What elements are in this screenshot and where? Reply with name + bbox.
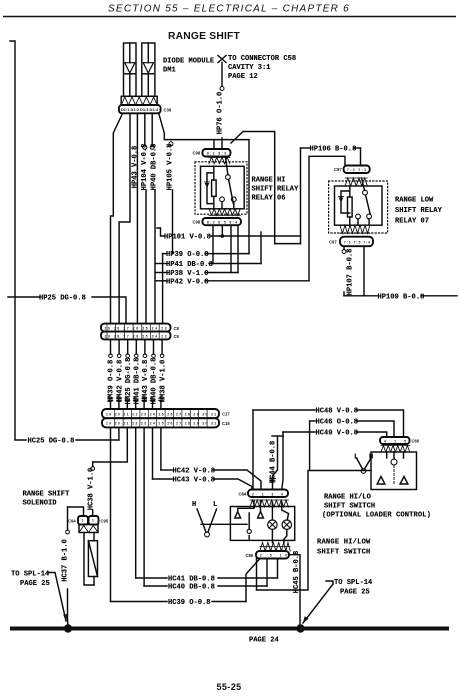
svg-text:HC39 O-0.8: HC39 O-0.8 [168, 599, 211, 607]
wire HP105 lower to HP39 row [172, 190, 174, 254]
svg-text:SHIFT SWITCH: SHIFT SWITCH [317, 549, 370, 557]
wire DM1 pin1 fan to strip pin 19 [111, 113, 123, 323]
wire HC41 from pin [277, 559, 279, 579]
wire HP25 branch tick [8, 296, 39, 298]
svg-text:RANGE HI/LOW: RANGE HI/LOW [317, 539, 371, 547]
svg-text:C97: C97 [334, 167, 342, 172]
relay 07 contact throws [356, 214, 361, 219]
optional switch triangle R [400, 477, 408, 485]
relay 06 contact common [226, 158, 228, 175]
lamp 1 [268, 520, 277, 529]
svg-text:C16: C16 [222, 421, 230, 426]
svg-text:PAGE 25: PAGE 25 [340, 589, 370, 597]
main switch center stub [248, 513, 250, 529]
svg-text:HC40 DB-0.8: HC40 DB-0.8 [168, 584, 215, 592]
relay 07 top crimps [345, 178, 367, 186]
wire lamp 1 out [271, 530, 273, 543]
svg-text:HC49 V-0.8: HC49 V-0.8 [316, 430, 359, 438]
svg-text:H: H [192, 501, 196, 509]
relay 07 contact common [362, 178, 365, 190]
wire relay06 right contact riser [260, 232, 262, 264]
wire HP39 row [163, 253, 166, 255]
lever main pivot [205, 532, 210, 537]
wire HC45 from pin 10 [289, 555, 301, 627]
svg-text:HP107 B-0.8: HP107 B-0.8 [346, 249, 354, 296]
svg-text:D1:1 D1:2 D1:3 D1:4: D1:1 D1:2 D1:3 D1:4 [121, 108, 158, 112]
wire HP39 riser [248, 140, 250, 254]
wire HP40 lower [154, 190, 156, 324]
relay 06 dashed enclosure [195, 162, 247, 214]
svg-text:L: L [354, 454, 358, 462]
wire HP107 B-0.8 [343, 246, 345, 249]
svg-text:HC45 B-0.8: HC45 B-0.8 [293, 551, 301, 594]
wire HC42 row [161, 469, 172, 471]
svg-text:DM1: DM1 [163, 67, 176, 75]
relay 06 contact throws [220, 197, 225, 202]
solenoid connector C95 [89, 516, 99, 525]
svg-text:HP106 B-0.8: HP106 B-0.8 [310, 146, 357, 154]
svg-text:TO CONNECTOR C58: TO CONNECTOR C58 [228, 55, 296, 63]
connector strip C9 [101, 332, 171, 340]
svg-text:HP104 V-0.8: HP104 V-0.8 [141, 144, 149, 191]
svg-text:C98: C98 [193, 220, 201, 225]
svg-text:C60: C60 [412, 439, 420, 444]
connector strip C16 [102, 418, 219, 427]
svg-text:H: H [369, 454, 373, 462]
wire lamp 2 out jog [284, 530, 287, 543]
svg-text:HM43 V-0.8: HM43 V-0.8 [142, 360, 150, 403]
off-page symbol to connector C58 [218, 56, 226, 63]
main switch body [230, 507, 294, 541]
svg-text:C94: C94 [68, 519, 76, 524]
wire solenoid left leg [84, 533, 94, 586]
svg-text:SHIFT RELAY: SHIFT RELAY [395, 207, 443, 215]
wire HP41 row [156, 263, 166, 265]
svg-text:RANGE SHIFT: RANGE SHIFT [168, 31, 241, 42]
wire HP104 lower [145, 190, 147, 324]
wire HC39 descent pin19 [110, 427, 112, 601]
relay 07 dashed enclosure [329, 181, 388, 233]
wire HM43 stub [144, 339, 146, 354]
node HP101 junction dot [220, 234, 224, 238]
main switch triangle 2 [258, 512, 264, 519]
wire HC40 row [144, 585, 167, 587]
wire HP106 row [301, 147, 311, 149]
wire HC41 descent pin22 [135, 427, 137, 578]
wire relay06 pin B4 to HP38 row [230, 225, 232, 272]
svg-text:DIODE MODULE: DIODE MODULE [163, 58, 214, 66]
wire HC37 B-1.0 [67, 507, 69, 530]
wire relay06 pin B2 to HP41 row [212, 225, 214, 263]
wire lever line to body [201, 523, 247, 525]
wire DM1 pin2 fan to strip pin 20 [119, 113, 130, 323]
node junction dot left [64, 624, 72, 632]
main switch bottom connector C85 [256, 551, 289, 559]
svg-text:C17: C17 [222, 412, 230, 417]
relay 07 coil diode branch [341, 191, 350, 213]
TEXTS_PLACEHOLDER [76, 324, 261, 602]
wire HP39 drop to strip C8 [162, 254, 164, 324]
svg-text:PAGE 24: PAGE 24 [249, 637, 280, 645]
wires HM into strip C17 with crimp ticks [111, 401, 161, 409]
main switch top crimps [250, 500, 288, 507]
svg-text:HP39 O-0.8: HP39 O-0.8 [166, 251, 209, 259]
connector strip C17 [102, 409, 219, 418]
wire relay06 pin B5 to HP101 row [221, 225, 223, 236]
DM1 crimp box [121, 96, 157, 105]
wire HC44 top stub [272, 435, 283, 437]
svg-text:HC42 V-0.8: HC42 V-0.8 [173, 468, 216, 476]
svg-text:19 20 21 22 23 24 25 26 27 28: 19 20 21 22 23 24 25 26 27 28 29 30 31 [106, 412, 216, 416]
wire optional lever line [310, 470, 371, 472]
wire HC38 descent pin21 [93, 427, 128, 462]
relay 07 top connector [344, 166, 370, 174]
svg-text:HP41 DB-0.8: HP41 DB-0.8 [166, 261, 213, 269]
wire HP76 O-1.0 upper [221, 63, 223, 87]
relay 06 coil [213, 166, 215, 180]
wire HP105 horizontal to relay 06 [171, 139, 249, 141]
svg-text:SHIFT SWITCH: SHIFT SWITCH [324, 503, 375, 511]
main switch bottom crimps [260, 543, 290, 552]
svg-text:HM38 V-1.0: HM38 V-1.0 [159, 360, 167, 403]
svg-text:HP38 V-1.0: HP38 V-1.0 [166, 270, 209, 278]
svg-text:HM42 V-0.8: HM42 V-0.8 [116, 360, 124, 403]
relay 06 contact arm [229, 179, 234, 203]
svg-text:HP101 V-0.8: HP101 V-0.8 [164, 234, 211, 242]
svg-text:PAGE 12: PAGE 12 [228, 73, 258, 81]
wire HP101 row [157, 228, 164, 236]
svg-text:RANGE HI: RANGE HI [252, 177, 286, 185]
relay 06 coil diode branch [207, 173, 214, 204]
right TO SPL-14 leader [326, 581, 333, 584]
svg-text:HC38 V-1.0: HC38 V-1.0 [87, 468, 95, 511]
wire HC38 label stub [92, 462, 94, 467]
wire triangle 1 jog to pin 2 [238, 501, 254, 512]
relay 06 top crimps [209, 157, 230, 164]
wire left bus [10, 41, 26, 440]
svg-text:TO SPL-14: TO SPL-14 [334, 579, 373, 587]
wire HC49 riser [282, 432, 283, 490]
diode D1 [129, 43, 131, 63]
lever main legs [197, 509, 217, 532]
svg-text:HM40 DB-0.8: HM40 DB-0.8 [151, 358, 159, 405]
left TO SPL-14 leader [48, 573, 66, 622]
wire HC40 descent pin23 [143, 427, 145, 586]
svg-text:HM41 DB-0.8: HM41 DB-0.8 [133, 358, 141, 405]
wire lamp 2 feed jog [282, 502, 289, 520]
svg-text:HM25 DG-0.8: HM25 DG-0.8 [125, 358, 133, 405]
wire HM25 stub [127, 339, 129, 354]
diode D2 [147, 43, 149, 63]
wire relay06 aux drop [237, 225, 239, 272]
wire triangle 2 stub [260, 501, 262, 512]
wire HM38 stub [161, 339, 163, 354]
wire optional inner drops [387, 452, 404, 459]
svg-text:HP105 V-0.8: HP105 V-0.8 [166, 144, 174, 191]
svg-text:HP76 O-1.0: HP76 O-1.0 [216, 92, 224, 135]
svg-text:1: 1 [92, 519, 94, 523]
svg-text:HP43 V-0.8: HP43 V-0.8 [131, 146, 139, 189]
wire HC46 row [310, 420, 315, 422]
svg-text:HM39 O-0.8: HM39 O-0.8 [108, 360, 116, 403]
svg-text:HP40 DB-0.8: HP40 DB-0.8 [150, 144, 158, 191]
svg-text:1: 1 [82, 519, 84, 523]
connector C36 of DM1 [119, 105, 161, 113]
svg-text:TO SPL-14: TO SPL-14 [11, 571, 50, 579]
wire HC25 descent pin20 [118, 427, 120, 440]
diode module DM1 body [124, 43, 137, 96]
svg-text:C85: C85 [246, 553, 254, 558]
svg-text:7:2 7:3: 7:2 7:3 [347, 168, 366, 172]
svg-text:HP109 B-0.8: HP109 B-0.8 [378, 293, 425, 301]
optional switch crimps [381, 446, 410, 453]
header rule [3, 16, 456, 18]
wire HC43 descent pin24 [152, 427, 154, 479]
relay 07 coil [349, 186, 351, 197]
strip C17/C16 pin ticks [115, 410, 207, 426]
svg-text:PAGE 25: PAGE 25 [20, 580, 50, 588]
main switch top connector C84 [248, 490, 288, 498]
svg-text:HP42 V-0.8: HP42 V-0.8 [166, 278, 209, 286]
svg-text:RANGE LOW: RANGE LOW [395, 197, 434, 205]
optional lever pivot [361, 469, 366, 474]
wire HP38 row [156, 272, 166, 274]
optional switch connector C69 [380, 437, 410, 444]
optional switch triangle L [377, 477, 385, 485]
optional switch body [371, 452, 417, 490]
svg-text:HC46 O-0.8: HC46 O-0.8 [316, 419, 359, 427]
relay 06 bottom connector C98 [202, 218, 241, 225]
svg-text:HC44 B-0.8: HC44 B-0.8 [269, 441, 277, 484]
wire HP25 to strip C8 [92, 297, 126, 324]
relay 06 box [201, 166, 245, 209]
wire HC49 row [283, 431, 315, 433]
ground bus PAGE 24 [10, 627, 449, 631]
svg-text:SOLENOID: SOLENOID [23, 500, 57, 508]
relay 07 contact arm [366, 195, 370, 214]
svg-text:19 20 21 22 23 24 25 26 27 28: 19 20 21 22 23 24 25 26 27 28 29 30 31 [106, 422, 216, 426]
node junction dot right [296, 624, 304, 632]
main switch triangle 1 [235, 512, 241, 519]
wire HC46 riser [309, 421, 311, 471]
wire HC40 from pin 5 [266, 559, 268, 587]
svg-text:HC48 V-0.8: HC48 V-0.8 [316, 408, 359, 416]
wire HP43 V-0.8 [136, 113, 138, 323]
solenoid connector C94 [78, 516, 88, 525]
svg-text:C95: C95 [101, 519, 109, 524]
wire optional switch common return [257, 471, 309, 591]
wire HC39 from pin 2 [246, 559, 260, 602]
wire HC41 row [136, 577, 167, 579]
solenoid coil [88, 541, 97, 577]
svg-text:7:1 7:5 7:4: 7:1 7:5 7:4 [344, 241, 370, 245]
wire HP42 row [156, 280, 166, 282]
svg-text:55-25: 55-25 [216, 682, 241, 692]
wire HM40 stub [153, 339, 155, 354]
solenoid crimp box [79, 525, 98, 533]
wire HP107/HP109 row [344, 295, 377, 297]
relay 06 top connector C98 [202, 149, 230, 157]
wire HP42 riser to relay 07 [309, 156, 345, 280]
svg-text:HC41 DB-0.8: HC41 DB-0.8 [168, 576, 215, 584]
strip C8/C9 pin ticks [107, 325, 159, 339]
wire HC25 row [76, 439, 119, 441]
wire HC48 corner riser [252, 410, 254, 490]
svg-text:C8: C8 [174, 326, 180, 331]
wire HC43 row [153, 478, 173, 480]
relay 07 bottom crimps [340, 225, 370, 233]
wire lamp 1 feed [271, 502, 273, 520]
svg-text:CAVITY 3:1: CAVITY 3:1 [228, 64, 271, 72]
svg-text:RANGE SHIFT: RANGE SHIFT [23, 491, 71, 499]
svg-text:RANGE HI/LO: RANGE HI/LO [324, 494, 371, 502]
svg-text:C84: C84 [239, 492, 247, 497]
wire HP40 DB-0.8 upper stub [151, 113, 153, 145]
svg-text:(OPTIONAL LOADER CONTROL): (OPTIONAL LOADER CONTROL) [322, 512, 431, 520]
lamp 2 [282, 520, 291, 529]
wire HP101 jog [275, 243, 301, 245]
svg-text:RELAY 06: RELAY 06 [252, 195, 286, 203]
wire HC48 row [253, 409, 315, 411]
svg-text:C9: C9 [174, 334, 180, 339]
connector strip C8 [101, 324, 171, 332]
svg-text:HC37 B-1.0: HC37 B-1.0 [61, 539, 69, 582]
wire HP104 V-0.8 upper stub [144, 113, 146, 145]
wire HC39 row [111, 601, 168, 603]
wire HP76 lower into relay 06 [221, 138, 223, 149]
optional switch inner contact circle [391, 459, 397, 465]
svg-text:8:1 8:3: 8:1 8:3 [207, 152, 226, 156]
wire HM39 stub and circle [110, 339, 112, 354]
wire solenoid coil stubs [93, 533, 95, 541]
optional switch center dashes [393, 466, 395, 485]
relay 07 box [335, 186, 383, 225]
wire HC37 hook from connector [68, 507, 84, 516]
optional lever legs [357, 458, 372, 469]
svg-text:C97: C97 [329, 240, 337, 245]
svg-text:L: L [213, 501, 217, 509]
svg-text:C98: C98 [193, 151, 201, 156]
svg-text:C36: C36 [164, 108, 172, 113]
wire relay06 top right diagonal [231, 132, 275, 244]
wire HP105 V-0.8 flare and feed [159, 113, 171, 139]
relay 07 bottom connector [340, 237, 373, 247]
svg-text:HC43 V-0.8: HC43 V-0.8 [173, 477, 216, 485]
relay 06 bottom crimps [209, 209, 240, 216]
svg-text:SECTION 55 – ELECTRICAL – CHAP: SECTION 55 – ELECTRICAL – CHAPTER 6 [108, 4, 350, 15]
wire HM42 stub [118, 339, 120, 354]
svg-text:HC25 DG-0.8: HC25 DG-0.8 [28, 438, 75, 446]
wire HP106 riser [300, 148, 302, 244]
wire HP109 riser [363, 246, 365, 296]
wire HC44 B-0.8 [273, 436, 278, 490]
wire drop into relay 06 top pin [213, 140, 215, 149]
svg-text:HP25 DG-0.8: HP25 DG-0.8 [39, 295, 86, 303]
svg-text:RELAY 07: RELAY 07 [395, 218, 429, 226]
wire HC42 descent pin25 [160, 427, 162, 470]
wire HM41 stub [135, 339, 137, 354]
svg-text:SHIFT RELAY: SHIFT RELAY [252, 186, 300, 194]
